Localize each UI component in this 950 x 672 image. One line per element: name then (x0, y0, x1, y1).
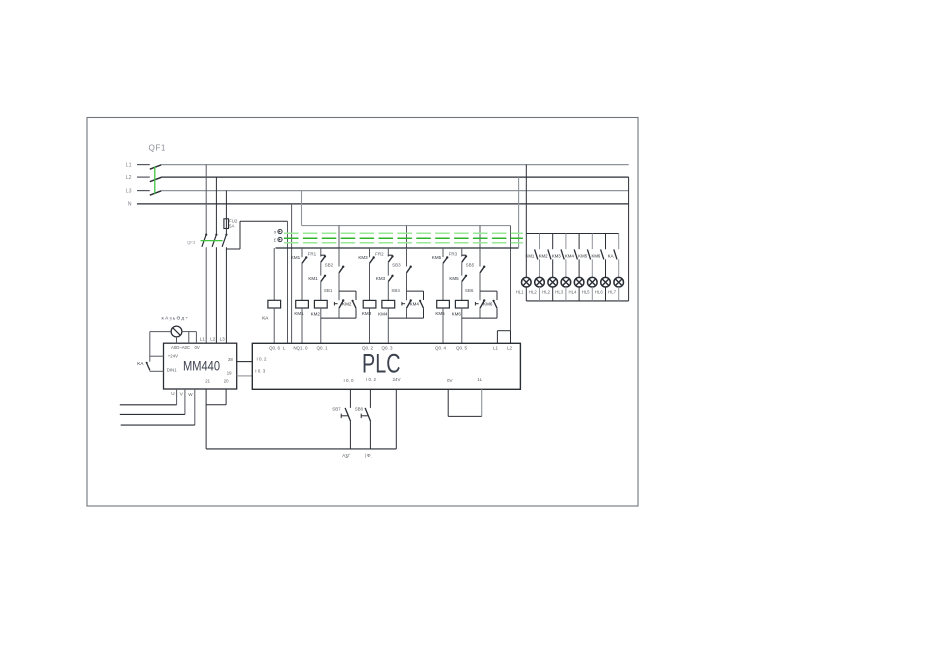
svg-text:Q1. 0: Q1. 0 (296, 345, 308, 350)
svg-text:I 0. 3: I 0. 3 (255, 368, 266, 373)
svg-text:FR2: FR2 (375, 251, 384, 256)
svg-text:U: U (171, 391, 174, 396)
svg-text:KM2: KM2 (311, 312, 321, 317)
svg-text:Q0. 6: Q0. 6 (269, 345, 281, 350)
svg-text:SB2: SB2 (325, 263, 334, 268)
svg-text:KM6: KM6 (591, 253, 600, 258)
svg-text:KM1: KM1 (291, 255, 301, 260)
svg-text:HL1: HL1 (516, 290, 524, 295)
svg-text:20: 20 (224, 378, 229, 383)
svg-text:KM2: KM2 (342, 302, 352, 307)
svg-text:0V: 0V (195, 345, 200, 350)
svg-text:+24V: +24V (168, 354, 178, 359)
svg-text:KM6: KM6 (452, 312, 462, 317)
svg-text:KM3: KM3 (358, 255, 368, 260)
svg-text:19: 19 (227, 370, 232, 375)
svg-text:L3: L3 (126, 188, 132, 194)
svg-text:KM1: KM1 (294, 311, 304, 316)
svg-text:Q0. 1: Q0. 1 (316, 345, 328, 350)
svg-text:KA: KA (262, 316, 269, 321)
svg-text:HL5: HL5 (582, 290, 590, 295)
svg-text:KM3: KM3 (362, 311, 372, 316)
svg-text:QF3: QF3 (187, 240, 196, 245)
svg-text:HL2: HL2 (529, 290, 537, 295)
svg-text:KA: KA (137, 361, 144, 366)
svg-text:L2: L2 (210, 337, 216, 342)
svg-text:KM4: KM4 (410, 302, 420, 307)
svg-text:Q0. 3: Q0. 3 (381, 345, 393, 350)
svg-text:KM1: KM1 (308, 276, 318, 281)
svg-text:28: 28 (228, 357, 233, 362)
svg-text:KM5: KM5 (449, 276, 459, 281)
svg-text:SB3: SB3 (392, 263, 401, 268)
svg-text:L1: L1 (126, 162, 132, 168)
svg-text:DIN1: DIN1 (167, 368, 177, 373)
svg-text:0V: 0V (447, 378, 453, 383)
svg-text:QF1: QF1 (149, 144, 166, 153)
svg-text:KM4: KM4 (378, 312, 388, 317)
svg-text:HL3: HL3 (555, 290, 563, 295)
svg-text:KM2: KM2 (539, 253, 548, 258)
svg-text:5A: 5A (229, 223, 234, 228)
svg-text:KM5: KM5 (435, 311, 445, 316)
svg-text:I 0. 0: I 0. 0 (343, 378, 354, 383)
svg-text:L1: L1 (200, 337, 206, 342)
svg-text:L1: L1 (493, 345, 499, 350)
svg-text:| Φˌ: | Φˌ (365, 453, 372, 458)
svg-text:SB7: SB7 (332, 407, 341, 412)
svg-text:KM4: KM4 (565, 253, 574, 258)
svg-text:W: W (188, 392, 193, 397)
svg-text:1L: 1L (477, 377, 483, 382)
svg-text:SB4: SB4 (391, 288, 400, 293)
svg-text:Q0. 4: Q0. 4 (435, 345, 447, 350)
svg-text:L2: L2 (126, 175, 132, 181)
svg-text:KA: KA (608, 253, 614, 258)
svg-text:HL6: HL6 (595, 290, 603, 295)
svg-text:FR3: FR3 (449, 251, 458, 256)
svg-text:£: £ (274, 238, 277, 243)
svg-text:24V: 24V (392, 377, 400, 382)
svg-text:N: N (128, 202, 132, 208)
svg-text:ĸAȝьƟд÷: ĸAȝьƟд÷ (162, 315, 190, 321)
svg-text:KM3: KM3 (552, 253, 561, 258)
svg-text:KM5: KM5 (432, 255, 442, 260)
svg-text:KM1: KM1 (525, 253, 534, 258)
svg-text:FR1: FR1 (308, 251, 317, 256)
svg-text:PLC: PLC (362, 348, 401, 378)
svg-text:KM3: KM3 (376, 276, 386, 281)
svg-text:HL4: HL4 (569, 290, 577, 295)
svg-text:21: 21 (205, 378, 210, 383)
svg-text:HL2: HL2 (542, 290, 550, 295)
svg-text:L3: L3 (220, 337, 226, 342)
svg-text:SB5: SB5 (466, 263, 475, 268)
svg-text:SB8: SB8 (355, 407, 364, 412)
svg-text:I 0. 2: I 0. 2 (366, 377, 377, 382)
svg-text:I 0. 2: I 0. 2 (257, 357, 268, 362)
svg-text:KM6: KM6 (483, 302, 493, 307)
svg-text:SB1: SB1 (324, 288, 333, 293)
svg-text:SB6: SB6 (465, 288, 474, 293)
svg-text:Q0. 2: Q0. 2 (362, 345, 374, 350)
svg-text:MM440: MM440 (183, 359, 220, 374)
svg-text:A0D–A0C: A0D–A0C (171, 345, 190, 350)
svg-text:HL7: HL7 (608, 290, 616, 295)
svg-text:Q0. 5: Q0. 5 (456, 345, 468, 350)
svg-text:KM5: KM5 (578, 253, 587, 258)
svg-text:L2: L2 (507, 345, 513, 350)
